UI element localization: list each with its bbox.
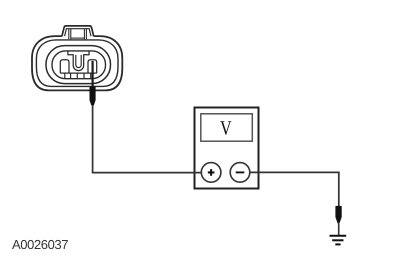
ground symbol <box>330 236 347 245</box>
figure label A0026037 <box>12 240 68 249</box>
plus sign <box>208 169 215 176</box>
voltmeter box <box>195 108 259 189</box>
wire: probe to ground symbol <box>338 222 340 235</box>
wire: right corner down to ground probe <box>338 172 340 207</box>
center keyway slot outer <box>68 51 89 70</box>
plus terminal circle <box>201 163 221 183</box>
wire: corner right to voltmeter + terminal <box>92 172 210 174</box>
test probe at ground <box>335 206 341 224</box>
right terminal cavity <box>88 60 97 73</box>
center keyway slot inner <box>76 55 81 68</box>
connector body outer shell <box>32 36 122 90</box>
wire: probe down to corner <box>92 105 94 173</box>
display V label <box>220 121 231 135</box>
terminal base comb ticks <box>65 73 91 79</box>
connector latch tab <box>62 26 94 39</box>
minus sign <box>236 171 245 173</box>
terminal base line <box>60 72 96 74</box>
seal ring outer oval <box>46 46 111 84</box>
connector body inner shell <box>36 40 118 87</box>
test probe at connector <box>90 86 96 105</box>
seal ring inner oval <box>52 51 106 79</box>
wire from right cavity down <box>91 61 93 90</box>
left terminal cavity <box>60 60 69 73</box>
voltmeter display <box>201 114 253 141</box>
wire: voltmeter - terminal to right corner <box>240 171 340 173</box>
minus terminal circle <box>230 163 250 183</box>
